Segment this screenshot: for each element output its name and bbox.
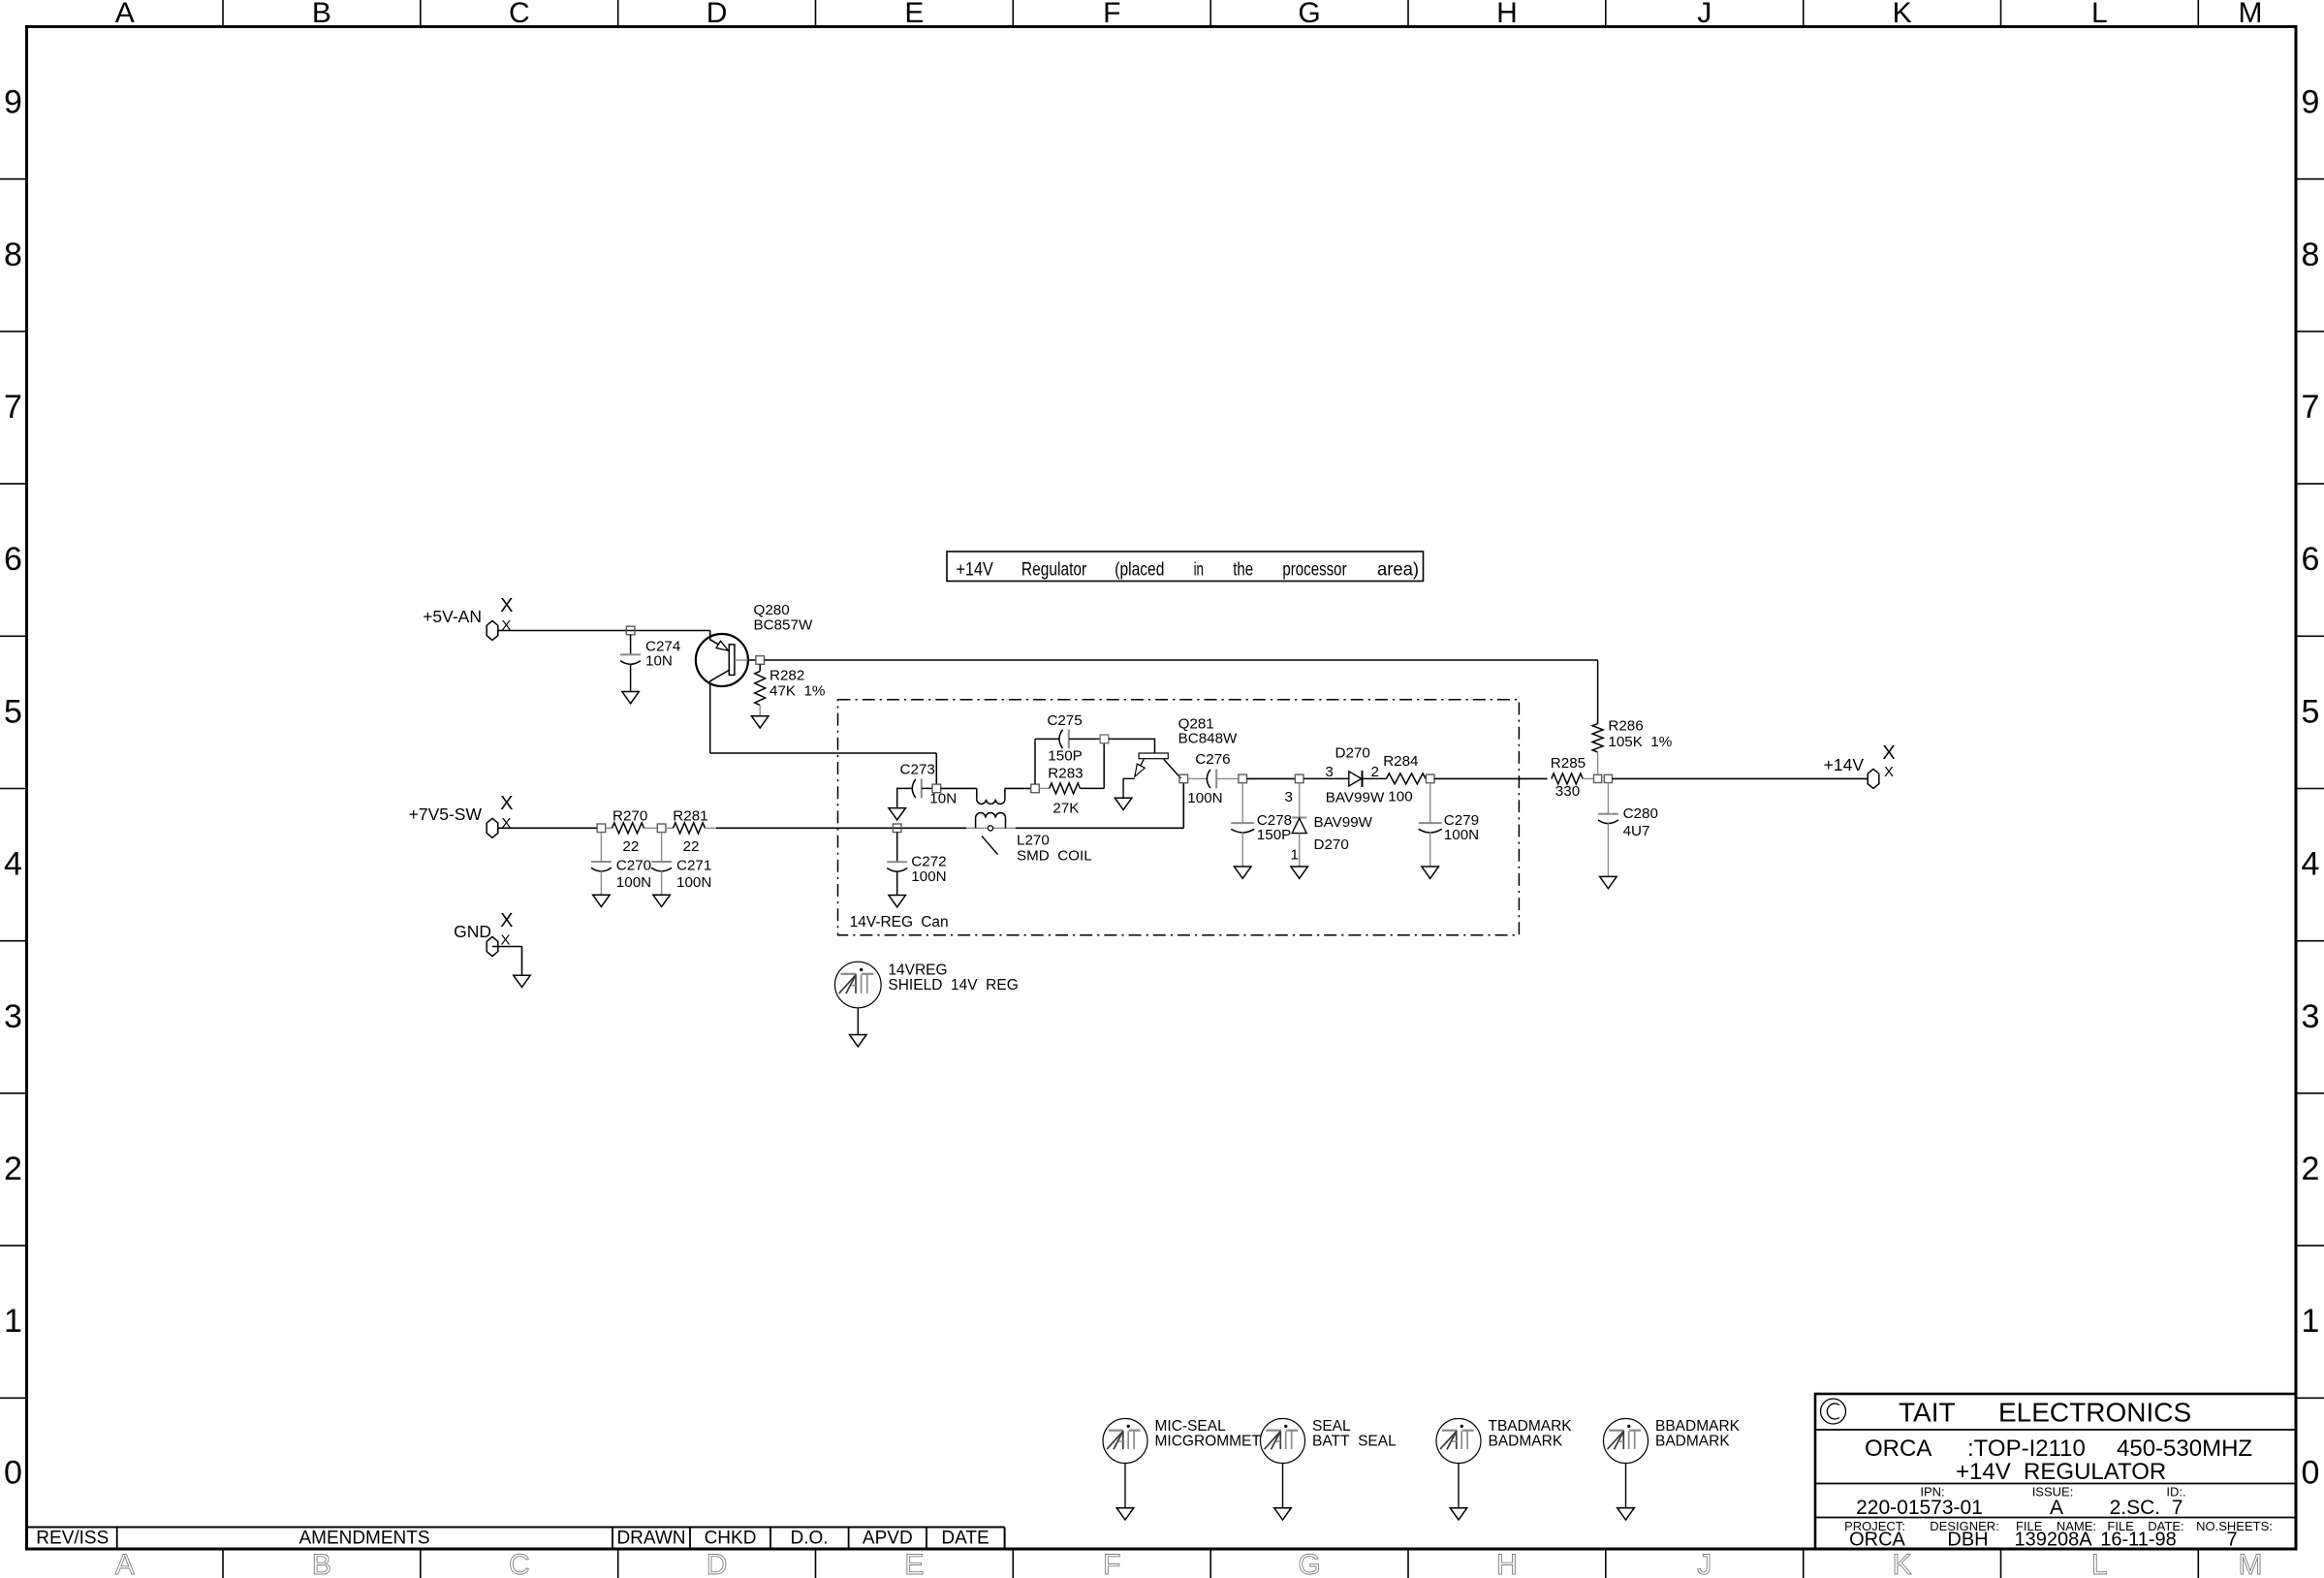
node C279 <box>1426 774 1434 783</box>
svg-text:the: the <box>1233 559 1253 581</box>
svg-text:X: X <box>1882 742 1895 764</box>
svg-text:0: 0 <box>4 1455 22 1492</box>
svg-text:150P: 150P <box>1048 748 1082 765</box>
svg-text:4: 4 <box>2302 846 2320 883</box>
capacitor C273 10N <box>897 788 913 807</box>
svg-text:X: X <box>501 617 511 634</box>
svg-text:C272: C272 <box>911 854 946 870</box>
svg-text:A: A <box>115 1549 135 1578</box>
svg-text:K: K <box>1893 1549 1912 1578</box>
svg-text:4U7: 4U7 <box>1623 823 1650 839</box>
svg-text:100N: 100N <box>1187 790 1222 806</box>
svg-text:MICGROMMET: MICGROMMET <box>1155 1434 1262 1450</box>
wire GND to ground <box>492 947 522 975</box>
svg-text:D.O.: D.O. <box>790 1529 828 1549</box>
svg-text:TBADMARK: TBADMARK <box>1489 1418 1573 1435</box>
wire C278 node to D270 node <box>1247 777 1296 779</box>
wire +7V5-SW rail <box>498 827 597 829</box>
svg-text:BC848W: BC848W <box>1178 731 1238 747</box>
svg-text:area): area) <box>1377 559 1419 581</box>
svg-text:L: L <box>2091 0 2108 29</box>
svg-text:E: E <box>904 1549 924 1578</box>
node C273/L270 <box>932 784 941 793</box>
svg-text:330: 330 <box>1555 783 1580 800</box>
svg-text:4: 4 <box>4 846 22 883</box>
svg-text:100N: 100N <box>676 874 711 891</box>
svg-text:GND: GND <box>454 922 491 941</box>
svg-text:R282: R282 <box>769 668 804 684</box>
svg-text:X: X <box>1884 764 1894 780</box>
svg-text:ELECTRONICS: ELECTRONICS <box>1998 1398 2191 1428</box>
svg-text:M: M <box>2239 0 2263 29</box>
svg-text:B: B <box>312 0 331 29</box>
svg-text:B: B <box>312 1549 331 1578</box>
port +7V5-SW <box>487 818 498 837</box>
wire Q280 collector to C273 node <box>710 752 937 754</box>
svg-text:1: 1 <box>1291 847 1299 864</box>
svg-text:BADMARK: BADMARK <box>1655 1434 1730 1450</box>
svg-text:150P: 150P <box>1257 827 1291 843</box>
svg-text:9: 9 <box>2302 84 2320 121</box>
capacitor C272 100N <box>896 833 898 863</box>
svg-text:BC857W: BC857W <box>754 617 813 634</box>
svg-text:BAV99W: BAV99W <box>1314 814 1373 831</box>
capacitor C274 10N <box>630 635 632 655</box>
svg-text:SEAL: SEAL <box>1312 1418 1351 1435</box>
svg-text:2.SC. 7: 2.SC. 7 <box>2110 1497 2183 1519</box>
svg-text:22: 22 <box>622 838 639 855</box>
svg-text:SHIELD 14V REG: SHIELD 14V REG <box>888 977 1018 994</box>
node Q280 base <box>756 656 765 665</box>
svg-text:R283: R283 <box>1048 766 1083 782</box>
node Q281 collector <box>1179 774 1188 783</box>
svg-text:C: C <box>509 0 530 29</box>
note box: +14V Regulator (placed in the processor area) <box>947 552 1424 582</box>
svg-text:100: 100 <box>1388 789 1412 805</box>
svg-text:L270: L270 <box>1017 833 1050 849</box>
ground (D270) <box>1291 867 1308 878</box>
svg-text:BADMARK: BADMARK <box>1489 1434 1563 1450</box>
wire C275 node to Q281 base <box>1109 739 1155 753</box>
resistor R283 27K <box>1039 787 1049 789</box>
svg-text:E: E <box>904 0 924 29</box>
svg-text:R286: R286 <box>1608 718 1643 735</box>
svg-text:47K 1%: 47K 1% <box>769 683 825 700</box>
diode D270 BAV99W (lower half, pins 3-1) <box>1299 783 1301 817</box>
svg-text:DRAWN: DRAWN <box>616 1529 685 1549</box>
node C274 junction <box>626 626 635 635</box>
ground (C272) <box>889 896 906 907</box>
svg-text:3: 3 <box>1285 789 1293 805</box>
svg-text:A: A <box>2050 1497 2063 1519</box>
svg-text:3: 3 <box>4 998 22 1035</box>
wire to R285 <box>1434 777 1548 779</box>
ground (C274) <box>622 692 640 704</box>
svg-text:+7V5-SW: +7V5-SW <box>409 805 483 824</box>
svg-text:100N: 100N <box>911 868 946 885</box>
bottom column index band <box>222 1549 224 1578</box>
resistor R286 105K 1% <box>1597 660 1599 724</box>
svg-text:X: X <box>500 595 513 616</box>
svg-text:6: 6 <box>2302 541 2320 578</box>
svg-text:450-530MHZ: 450-530MHZ <box>2117 1436 2252 1462</box>
svg-text:2: 2 <box>2302 1151 2320 1187</box>
svg-text:5: 5 <box>4 693 22 730</box>
capacitor C276 100N <box>1188 777 1208 779</box>
svg-text:X: X <box>500 793 513 814</box>
svg-text:ORCA: ORCA <box>1865 1436 1931 1462</box>
svg-text:ORCA: ORCA <box>1849 1530 1905 1551</box>
svg-text:SMD COIL: SMD COIL <box>1017 848 1092 865</box>
wire 7V5 rail into can <box>716 827 966 829</box>
node R283 left <box>1031 784 1040 793</box>
svg-text:3: 3 <box>1325 764 1333 780</box>
right row index band <box>2296 178 2324 180</box>
left row index band <box>0 178 27 180</box>
node R270 left <box>597 824 606 833</box>
inductor L270 (bottom winding) <box>975 818 977 829</box>
svg-text:K: K <box>1893 0 1912 29</box>
svg-text:C280: C280 <box>1623 805 1658 822</box>
capacitor C275 150P <box>1034 739 1036 784</box>
svg-text:DATE: DATE <box>941 1529 989 1549</box>
svg-text:22: 22 <box>683 838 700 855</box>
svg-text:16-11-98: 16-11-98 <box>2100 1530 2177 1551</box>
svg-text:R270: R270 <box>612 808 647 825</box>
resistor R282 47K 1% <box>759 664 761 671</box>
ground (C273) <box>889 808 906 820</box>
svg-text:9: 9 <box>4 84 22 121</box>
svg-text:MIC-SEAL: MIC-SEAL <box>1155 1418 1227 1435</box>
svg-text:+5V-AN: +5V-AN <box>423 607 482 626</box>
svg-text:R284: R284 <box>1383 753 1418 770</box>
svg-text:D: D <box>707 1549 728 1578</box>
svg-text:processor: processor <box>1282 559 1347 581</box>
svg-text:100N: 100N <box>1444 827 1479 843</box>
svg-text:3: 3 <box>2302 998 2320 1035</box>
svg-text:X: X <box>501 815 511 832</box>
svg-text:7: 7 <box>2302 389 2320 426</box>
BBADMARK symbol (Tait logo) <box>1604 1419 1649 1464</box>
node C272/C273 <box>893 824 901 833</box>
svg-text:D270: D270 <box>1314 836 1349 853</box>
svg-text:+14V: +14V <box>1824 755 1865 774</box>
capacitor C270 100N <box>600 833 602 862</box>
svg-text:J: J <box>1697 1549 1712 1578</box>
svg-text:C275: C275 <box>1047 712 1082 729</box>
resistor R284 100 <box>1386 773 1426 784</box>
svg-text:G: G <box>1298 0 1320 29</box>
svg-text:0: 0 <box>2302 1455 2320 1492</box>
svg-text:Q280: Q280 <box>754 602 790 618</box>
svg-text:H: H <box>1496 0 1518 29</box>
wire +5V-AN to Q280 emitter <box>498 630 710 632</box>
copyright symbol <box>1821 1399 1846 1424</box>
svg-text:7: 7 <box>2226 1530 2237 1551</box>
svg-text:BAV99W: BAV99W <box>1326 790 1385 806</box>
svg-text:in: in <box>1194 559 1204 581</box>
svg-text:C273: C273 <box>900 762 935 778</box>
svg-text:100N: 100N <box>616 874 651 891</box>
capacitor C280 4U7 <box>1607 783 1609 814</box>
node D270 anode <box>1295 774 1303 783</box>
svg-text:Regulator: Regulator <box>1021 559 1087 581</box>
svg-text:C271: C271 <box>676 858 711 874</box>
svg-text:J: J <box>1697 0 1712 29</box>
svg-text:+14V: +14V <box>957 559 993 581</box>
svg-text:8: 8 <box>2302 237 2320 273</box>
amendments table <box>27 1527 1005 1529</box>
svg-text:5: 5 <box>2302 693 2320 730</box>
port GND <box>487 937 498 957</box>
shield 14VREG symbol (Tait logo) <box>835 962 882 1008</box>
svg-text:10N: 10N <box>645 653 673 670</box>
svg-text:14VREG: 14VREG <box>888 963 947 979</box>
inductor L270 SMD COIL (top winding) <box>941 787 977 789</box>
wire L270 to Q281 collector <box>1016 827 1183 829</box>
MIC-SEAL symbol (Tait logo) <box>1103 1419 1147 1464</box>
TBADMARK symbol (Tait logo) <box>1436 1419 1481 1464</box>
capacitor C278 150P <box>1241 783 1243 823</box>
svg-text:2: 2 <box>4 1151 22 1187</box>
svg-text:REV/ISS: REV/ISS <box>36 1529 109 1549</box>
svg-text:H: H <box>1496 1549 1518 1578</box>
node R286/C280 <box>1594 774 1602 782</box>
svg-text:DBH: DBH <box>1947 1530 1988 1551</box>
svg-text:G: G <box>1298 1549 1320 1578</box>
svg-text:F: F <box>1103 1549 1120 1578</box>
svg-text:APVD: APVD <box>863 1529 913 1549</box>
svg-text:C: C <box>509 1549 530 1578</box>
transistor Q281 BC848W <box>1139 753 1168 759</box>
svg-text:D270: D270 <box>1335 745 1370 762</box>
ground (R282) <box>751 716 769 728</box>
svg-text:105K 1%: 105K 1% <box>1608 734 1672 750</box>
svg-text:139208A: 139208A <box>2014 1530 2092 1551</box>
svg-text:CHKD: CHKD <box>705 1529 757 1549</box>
svg-text:14V-REG: 14V-REG <box>850 914 913 931</box>
svg-text:8: 8 <box>4 237 22 273</box>
svg-text:X: X <box>500 910 513 931</box>
node C278 <box>1239 774 1247 783</box>
diode D270 BAV99W (upper half, pins 3-2) <box>1303 777 1349 779</box>
port +14V <box>1868 769 1879 788</box>
SEAL symbol (Tait logo) <box>1261 1419 1305 1464</box>
svg-text:D: D <box>707 0 728 29</box>
svg-text:TAIT: TAIT <box>1899 1398 1956 1428</box>
svg-text:6: 6 <box>4 541 22 578</box>
svg-text:L: L <box>2091 1549 2108 1578</box>
svg-text:AMENDMENTS: AMENDMENTS <box>298 1529 429 1549</box>
svg-text:+14V REGULATOR: +14V REGULATOR <box>1956 1459 2166 1485</box>
title block <box>1815 1394 2296 1549</box>
ground (C280) <box>1600 876 1617 888</box>
svg-text:7: 7 <box>4 389 22 426</box>
resistor R285 330 <box>1552 773 1583 784</box>
svg-text:C270: C270 <box>616 858 651 874</box>
svg-text:C276: C276 <box>1195 751 1230 768</box>
svg-text:2: 2 <box>1371 764 1379 780</box>
wire to +14V port <box>1613 777 1869 779</box>
node R270/R281 <box>657 824 666 833</box>
svg-text:A: A <box>115 0 135 29</box>
port +5V-AN <box>487 621 498 641</box>
svg-text::TOP-I2110: :TOP-I2110 <box>1967 1436 2086 1462</box>
ground (Q281 emitter) <box>1115 798 1132 809</box>
14V-REG Can shield box <box>838 700 1520 935</box>
svg-text:M: M <box>2239 1549 2263 1578</box>
svg-text:F: F <box>1103 0 1120 29</box>
svg-text:1: 1 <box>2302 1303 2320 1340</box>
resistor R281 22 <box>666 827 674 829</box>
ground (GND port) <box>514 975 531 987</box>
resistor R270 22 <box>606 827 612 829</box>
capacitor C279 100N <box>1429 783 1431 823</box>
svg-text:BATT SEAL: BATT SEAL <box>1312 1434 1397 1450</box>
node C275 right <box>1100 735 1109 743</box>
transistor Q280 BC857W <box>696 634 748 686</box>
svg-text:(placed: (placed <box>1115 559 1164 581</box>
svg-text:R281: R281 <box>673 808 707 825</box>
svg-text:Can: Can <box>921 914 948 931</box>
wire Q280 base to R286 <box>765 659 1598 661</box>
svg-text:27K: 27K <box>1052 801 1079 817</box>
svg-text:BBADMARK: BBADMARK <box>1655 1418 1741 1435</box>
svg-text:R285: R285 <box>1551 755 1586 772</box>
capacitor C271 100N <box>661 833 663 862</box>
svg-text:1: 1 <box>4 1303 22 1340</box>
top column index band <box>222 0 224 27</box>
svg-text:220-01573-01: 220-01573-01 <box>1856 1497 1983 1519</box>
